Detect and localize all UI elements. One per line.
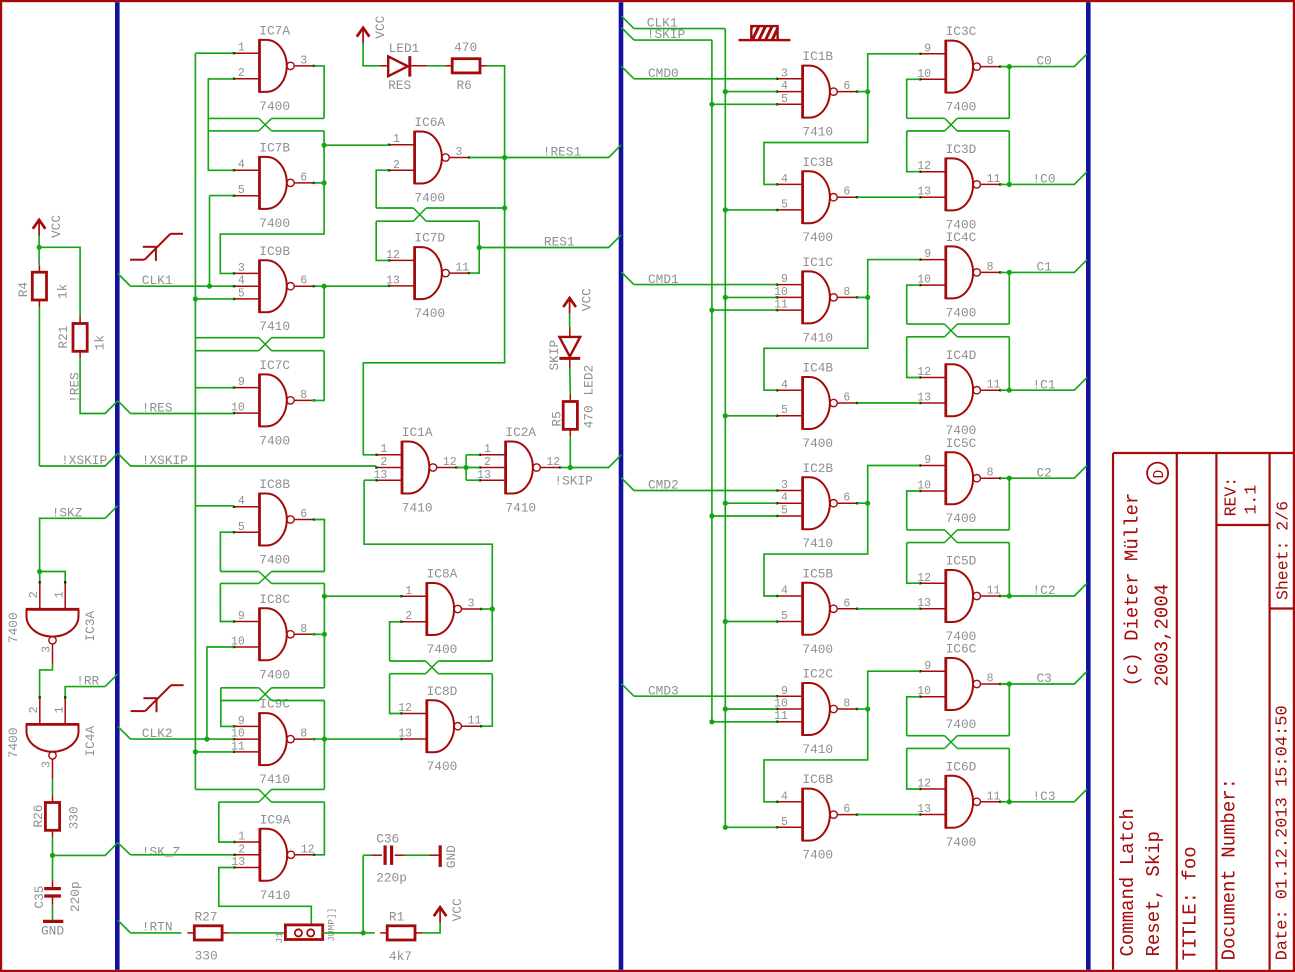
pin 2 of IC6A [393, 159, 400, 172]
label IC4A value 7400 [6, 727, 21, 758]
nand gate IC4A [26, 696, 80, 779]
nand gate IC8B [233, 493, 315, 547]
junction CLK1/IC4B node [723, 413, 728, 418]
nand gate IC3B [776, 170, 859, 224]
label IC6A value 7400 [414, 191, 445, 206]
pin 4 of IC8B [238, 495, 245, 508]
pin 1 of IC6A [393, 133, 400, 146]
label IC7C name [259, 358, 290, 373]
pin 6 of IC3B (output) [843, 186, 850, 199]
pin 3 of IC3A (output) [41, 646, 54, 653]
wire IC8A pin2 loop [390, 622, 401, 661]
wire IC8A out down [491, 609, 493, 661]
svg-text:CMD1: CMD1 [648, 272, 679, 287]
label IC9B value 7410 [259, 319, 290, 334]
pin 10 of IC2C [774, 698, 788, 711]
label IC8C value 7400 [259, 667, 290, 682]
wire IC1A out to IC2A pin2 [457, 467, 480, 469]
svg-text:1.1: 1.1 [1242, 485, 1261, 515]
svg-text:8: 8 [843, 286, 850, 299]
wire IC3B out to IC3D pin13 [857, 196, 920, 198]
wire node up to C36 [362, 855, 364, 933]
svg-text:LED2: LED2 [582, 365, 597, 396]
wire crossover IC5C/IC5D [945, 530, 958, 543]
wire IC2B out to IC5B pin4 [764, 503, 868, 596]
wire rail [195, 350, 258, 352]
label GND (bottom left) [41, 924, 64, 939]
pin 11 of IC6D (output) [987, 790, 1001, 803]
junction IC1C out node [865, 295, 870, 300]
label IC6A name [414, 115, 445, 130]
wire CMD1 to IC1C [634, 284, 777, 286]
svg-text:2: 2 [28, 706, 41, 713]
svg-text:R6: R6 [457, 78, 472, 93]
svg-text:RES: RES [388, 78, 411, 93]
wire VCC to R21 top [39, 247, 80, 316]
wire rail [957, 747, 1009, 749]
svg-text:7400: 7400 [414, 191, 445, 206]
wire rail [195, 788, 258, 790]
svg-text:7400: 7400 [259, 553, 290, 568]
svg-text:8: 8 [987, 261, 994, 274]
wire !SKIP to IC2B low pin [712, 515, 777, 517]
label C36 name [376, 831, 399, 846]
nand gate IC5D [919, 569, 1002, 623]
junction CLK1/IC7B.5 node [207, 284, 212, 289]
wire to IC6D pin12 [907, 748, 920, 789]
svg-text:5: 5 [781, 610, 788, 623]
wire rail [957, 130, 1009, 132]
pin 5 of IC4B [781, 404, 788, 417]
pin 11 of IC2C [774, 710, 788, 723]
pin 12 of IC5D [917, 572, 931, 585]
wire rail [220, 571, 258, 573]
label !C2 [1033, 583, 1056, 598]
junction !SKIP/IC1B node [709, 102, 714, 107]
label IC8B name [259, 477, 290, 492]
svg-text:IC8B: IC8B [259, 477, 290, 492]
pin 4 of IC7B [238, 159, 245, 172]
wire IC7A pin2 to IC7B pin4 [208, 79, 233, 170]
svg-text:7410: 7410 [505, 501, 536, 516]
svg-text:VCC: VCC [49, 215, 64, 238]
junction C36/R1 node [361, 930, 366, 935]
svg-text:IC2B: IC2B [802, 461, 833, 476]
label GND (near C36) [444, 845, 459, 868]
pin 4 of IC5B [781, 585, 788, 598]
pin 1 of IC4A [54, 706, 67, 713]
svg-text:6: 6 [843, 80, 850, 93]
svg-text:Sheet: 2/6: Sheet: 2/6 [1273, 501, 1292, 600]
wire CLK1 to IC3B pin5 [725, 209, 777, 211]
label IC3C value 7400 [946, 100, 977, 115]
svg-text:C0: C0 [1037, 54, 1052, 69]
wire CLK1 to IC9B pin4 [131, 285, 234, 287]
wire VCC node to R4 top [38, 247, 40, 265]
svg-text:IC7A: IC7A [259, 24, 290, 39]
junction CLK2/IC8C.10 node [204, 737, 209, 742]
svg-text:470: 470 [454, 40, 477, 55]
svg-text:JUMP]]: JUMP]] [326, 908, 337, 942]
label IC4B name [802, 361, 833, 376]
resistor R21 [73, 317, 87, 359]
wire R4 bottom to !XSKIP [38, 307, 40, 466]
wire !SKIP distribution vertical [711, 40, 713, 722]
resistor R4 [32, 265, 46, 307]
svg-text:7400: 7400 [259, 433, 290, 448]
label IC8C name [259, 592, 290, 607]
diode LED2 [559, 327, 580, 368]
pin 5 of IC5B [781, 610, 788, 623]
svg-text:5: 5 [781, 816, 788, 829]
pin 9 of IC5C [924, 454, 931, 467]
svg-text:1: 1 [238, 42, 245, 55]
wire to IC9B pin5 [195, 298, 233, 300]
svg-text:IC7D: IC7D [414, 231, 445, 246]
junction IC8A.1 node [322, 594, 327, 599]
svg-text:D: D [1152, 470, 1168, 479]
svg-text:5: 5 [781, 93, 788, 106]
label C3 [1037, 671, 1052, 686]
svg-text:IC6B: IC6B [802, 772, 833, 787]
svg-text:3: 3 [300, 54, 307, 67]
svg-text:R1: R1 [389, 910, 405, 925]
wire rail [907, 323, 945, 325]
svg-text:7400: 7400 [802, 230, 833, 245]
nand gate IC6A [388, 131, 471, 185]
svg-text:IC4C: IC4C [946, 230, 977, 245]
label !RR [76, 674, 99, 689]
svg-text:7410: 7410 [802, 536, 833, 551]
wire IC6B out to IC6D pin13 [857, 814, 920, 816]
wire loop to IC9B pin3 [220, 131, 324, 274]
nand gate IC8D [400, 699, 483, 753]
pin 13 of IC8D [398, 728, 412, 741]
bus B1 (vertical) [115, 2, 120, 970]
pin 11 of IC3D (output) [987, 173, 1001, 186]
svg-text:2: 2 [238, 67, 245, 80]
svg-text:3: 3 [455, 146, 462, 159]
nand gate IC3A [26, 581, 80, 664]
junction C1 node [1007, 270, 1012, 275]
svg-text:3: 3 [41, 761, 54, 768]
wire bus B2 exit CLK1 diagonal [621, 16, 634, 29]
label IC6B value 7400 [802, 848, 833, 863]
pin 1 of IC7A [238, 42, 245, 55]
nand gate IC7D [388, 246, 471, 300]
junction !C1 node [1007, 388, 1012, 393]
pin 12 of IC6D [917, 778, 931, 791]
wire to IC8A pin1 [324, 595, 401, 597]
label !C1 [1033, 377, 1056, 392]
label IC6C name [946, 642, 977, 657]
svg-text:SKIP: SKIP [547, 340, 562, 371]
junction !C2 node [1007, 593, 1012, 598]
label IC5D name [946, 554, 977, 569]
svg-text:5: 5 [238, 521, 245, 534]
label !RTN [142, 920, 173, 935]
svg-text:!RR: !RR [76, 674, 99, 689]
wire IC8B out down [314, 520, 324, 572]
svg-text:CMD3: CMD3 [648, 683, 679, 698]
pin 6 of IC6B (output) [843, 803, 850, 816]
resistor R1 [380, 926, 422, 940]
label J1 name [274, 932, 285, 944]
capacitor C35 [44, 881, 61, 905]
label IC3A name [83, 610, 98, 641]
wire to IC5C pin10 [907, 491, 920, 530]
wire IC3A out to IC4A pin2 [40, 664, 53, 698]
label IC4C value 7400 [946, 305, 977, 320]
wire rail [272, 571, 325, 573]
label IC7A name [259, 24, 290, 39]
wire rail [907, 117, 945, 119]
pin 2 of IC9A [238, 843, 245, 856]
wire to IC7D pin12 [376, 221, 389, 260]
wire rail [272, 687, 325, 689]
pin 10 of IC6C [917, 685, 931, 698]
svg-text:3: 3 [781, 479, 788, 492]
label IC6B name [802, 772, 833, 787]
svg-text:6: 6 [843, 492, 850, 505]
label IC5C value 7400 [946, 511, 977, 526]
label IC7D value 7400 [414, 306, 445, 321]
pin 13 of IC3D [917, 186, 931, 199]
svg-text:7410: 7410 [259, 319, 290, 334]
nand gate IC7B [233, 156, 315, 210]
wire IC1A pin13 stub wire [364, 479, 376, 481]
wire swap to IC6D out [1008, 748, 1010, 801]
title text Reset, Skip [1143, 831, 1165, 956]
label R26 value 330 [67, 806, 82, 829]
pin 5 of IC8B [238, 521, 245, 534]
label IC6C value 7400 [946, 717, 977, 732]
svg-text:RES1: RES1 [544, 234, 575, 249]
svg-text:IC3B: IC3B [802, 155, 833, 170]
wire IC2A input bracket [465, 455, 467, 480]
svg-text:J1: J1 [274, 932, 285, 944]
pin 9 of IC7C [238, 376, 245, 389]
rising-edge symbol (near CLK2) [131, 685, 184, 712]
wire R26 bottom to node [52, 837, 54, 855]
wire rail [220, 582, 258, 584]
pin 1 of IC1A [380, 443, 387, 456]
wire rail [272, 801, 325, 803]
label IC4B value 7400 [802, 436, 833, 451]
label R1 name [389, 910, 405, 925]
pin 4 of IC6B [781, 790, 788, 803]
label IC8D value 7400 [427, 759, 458, 774]
svg-text:!SKIP: !SKIP [647, 27, 685, 42]
bus B2 (vertical) [619, 2, 624, 970]
hatched bus-end marker [739, 25, 791, 42]
wire !XSKIP to IC1A pin2 [131, 465, 377, 467]
wire IC5C out down [1008, 478, 1010, 530]
wire rail [957, 542, 1009, 544]
wire rail [957, 336, 1009, 338]
svg-text:12: 12 [546, 456, 560, 469]
wire CMD0 to IC1B [634, 78, 777, 80]
svg-text:GND: GND [41, 924, 64, 939]
label !XSKIP (right) [142, 453, 188, 468]
pin 13 of IC5D [917, 597, 931, 610]
svg-text:IC3D: IC3D [946, 142, 977, 157]
svg-text:7400: 7400 [946, 717, 977, 732]
svg-text:Date: 01.12.2013 15:04:50: Date: 01.12.2013 15:04:50 [1273, 705, 1292, 960]
wire IC6A out [469, 157, 505, 159]
pin 1 of IC8A [405, 585, 412, 598]
wire CMD3 to IC2C [634, 695, 777, 697]
power VCC symbol (near LED1) [357, 28, 370, 44]
svg-text:1: 1 [484, 443, 491, 456]
svg-text:7400: 7400 [427, 642, 458, 657]
pin 3 of IC6A (output) [455, 146, 462, 159]
wire IC8A out [481, 608, 492, 610]
nand gate IC3C [919, 40, 1002, 94]
label IC6D value 7400 [946, 835, 977, 850]
pin 8 of IC1C (output) [843, 286, 850, 299]
pin 4 of IC1B [781, 80, 788, 93]
wire CLK2 to IC9C pin10 [131, 738, 234, 740]
wire swap to IC3D out [1008, 131, 1010, 184]
label C36 value 220p [376, 871, 407, 886]
wire bus B1 entry !RR diagonal [105, 674, 118, 687]
svg-text:IC5D: IC5D [946, 554, 977, 569]
wire bus B1 entry !SKZ diagonal [105, 506, 118, 519]
svg-text:12: 12 [443, 456, 457, 469]
pin 1 of IC2A [484, 443, 491, 456]
junction IC8A out node [490, 606, 495, 611]
junction !C3 node [1007, 799, 1012, 804]
wire rail [272, 117, 325, 119]
svg-text:7400: 7400 [259, 99, 290, 114]
svg-text:4: 4 [238, 275, 245, 288]
label IC3D name [946, 142, 977, 157]
junction C0 node [1007, 64, 1012, 69]
wire IC7B pin5 vertical [209, 196, 211, 287]
wire !SKIP to IC2C low pin [712, 721, 777, 723]
wire IC1C out to IC4B pin4 [764, 297, 868, 390]
pin 4 of IC4B [781, 379, 788, 392]
wire crossover IC8B/IC8C [259, 572, 272, 584]
title text REV: [1222, 477, 1241, 517]
ground GND (near C36) [429, 845, 440, 867]
resistor R26 [45, 796, 59, 838]
pin 12 of IC2A (output) [546, 456, 560, 469]
wire crossover IC9B/IC7C [259, 338, 272, 351]
pin 8 of IC6C (output) [987, 673, 994, 686]
wire R1 to VCC [422, 923, 440, 933]
wire bus B2 exit CMD3 diagonal [621, 684, 634, 697]
nand gate IC2A [479, 441, 562, 495]
pin 10 of IC3C [917, 68, 931, 81]
title text 2003,2004 [1152, 584, 1174, 687]
label IC7A value 7400 [259, 99, 290, 114]
svg-text:IC9A: IC9A [260, 812, 291, 827]
label VCC (near R1) [450, 898, 465, 921]
wire IC1B out to IC3B pin4 [764, 92, 868, 185]
pin 5 of IC7B [238, 184, 245, 197]
wire bus B1 exit CLK1 diagonal [118, 274, 131, 287]
wire CLK1 to IC2B mid pin [725, 502, 777, 504]
svg-text:R27: R27 [195, 910, 218, 925]
svg-text:6: 6 [843, 597, 850, 610]
svg-text:4: 4 [781, 379, 788, 392]
svg-text:1: 1 [54, 706, 67, 713]
wire rail [390, 660, 426, 662]
title text TITLE: foo [1179, 846, 1201, 960]
pin 10 of IC4C [917, 274, 931, 287]
svg-text:7400: 7400 [6, 727, 21, 758]
pin 10 of IC8C [231, 636, 245, 649]
junction CLK1/IC3B node [723, 207, 728, 212]
svg-text:3: 3 [781, 67, 788, 80]
wire CLK1 to IC1B mid pin [725, 91, 777, 93]
svg-text:IC6D: IC6D [946, 759, 977, 774]
label CMD3 [648, 683, 679, 698]
label IC4A name [83, 726, 98, 757]
svg-text:6: 6 [843, 186, 850, 199]
svg-text:!C0: !C0 [1033, 172, 1056, 187]
label R4 name [16, 282, 31, 298]
wire to IC9A pin1 [219, 802, 234, 842]
svg-text:6: 6 [300, 275, 307, 288]
junction CLK1/IC6B node [723, 825, 728, 830]
label R27 name [195, 910, 218, 925]
wire to IC7B pin5 [210, 195, 234, 197]
junction R26/C35/!SK_Z node [50, 853, 55, 858]
junction C3 node [1007, 681, 1012, 686]
svg-text:IC9C: IC9C [259, 697, 290, 712]
label R6 name [457, 78, 472, 93]
wire crossover IC6A/IC7D [413, 208, 426, 221]
svg-text:7410: 7410 [259, 772, 290, 787]
pin 9 of IC4C [924, 248, 931, 261]
wire IC8C out [312, 633, 324, 635]
svg-text:9: 9 [238, 376, 245, 389]
wire swap to IC4D out [1008, 337, 1010, 390]
wire IC4C out down [1008, 272, 1010, 324]
svg-text:VCC: VCC [450, 898, 465, 921]
wire IC2A out [560, 467, 570, 469]
junction CLK1/IC5B node [723, 619, 728, 624]
pin 9 of IC2C [781, 685, 788, 698]
svg-text:!C1: !C1 [1033, 377, 1056, 392]
pin 12 of IC4D [917, 366, 931, 379]
svg-text:7410: 7410 [260, 888, 291, 903]
label IC4C name [946, 230, 977, 245]
svg-text:1: 1 [380, 443, 387, 456]
title block frame [1113, 453, 1294, 970]
label CMD1 [648, 272, 679, 287]
label !RES (left, rotated) [68, 372, 83, 403]
wire IC1C out [857, 296, 868, 298]
label !C0 [1033, 172, 1056, 187]
wire CLK1 to IC2C mid pin [725, 708, 777, 710]
wire rail [957, 529, 1009, 531]
svg-text:IC3A: IC3A [83, 610, 98, 641]
svg-text:11: 11 [987, 173, 1001, 186]
wire swap to IC7D out [469, 221, 479, 273]
wire rail [376, 220, 413, 222]
wire crossover IC3C/IC3D [945, 118, 958, 131]
label !RES (right) [142, 400, 173, 415]
svg-text:C1: C1 [1037, 260, 1053, 275]
nand gate IC9A [233, 828, 316, 882]
label IC5B value 7400 [802, 642, 833, 657]
svg-text:IC2A: IC2A [505, 425, 536, 440]
pin 11 of IC7D (output) [455, 262, 469, 275]
